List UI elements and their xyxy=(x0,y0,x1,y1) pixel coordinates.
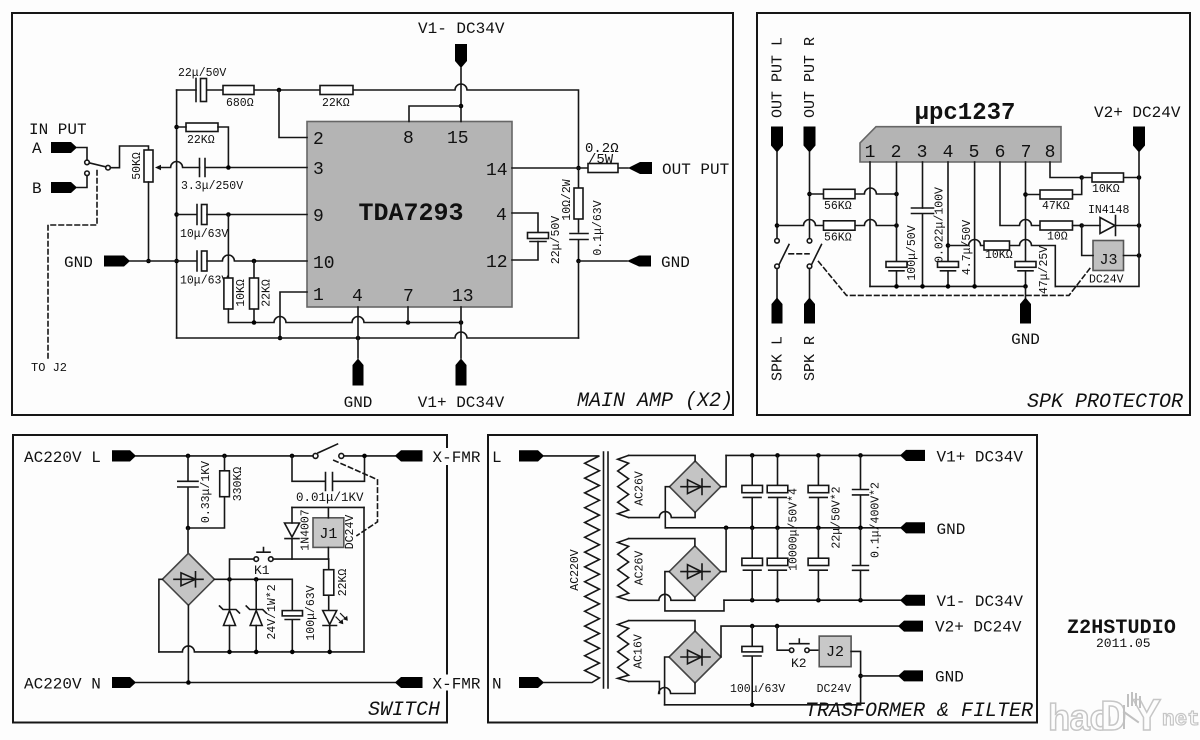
svg-text:N: N xyxy=(492,676,502,694)
resistor R2 22K feedback top xyxy=(320,86,353,111)
svg-text:0.1μ/63V: 0.1μ/63V xyxy=(592,200,605,255)
junction gnd c3 xyxy=(816,526,821,531)
svg-text:IN4148: IN4148 xyxy=(1088,204,1130,217)
svg-text:TRASFORMER & FILTER: TRASFORMER & FILTER xyxy=(805,700,1033,723)
transformer core xyxy=(604,452,609,688)
wire pin5 u2 xyxy=(974,162,976,286)
svg-text:100μ/63V: 100μ/63V xyxy=(730,683,785,696)
junction rail pin5 xyxy=(972,284,977,289)
svg-text:2: 2 xyxy=(313,130,324,150)
svg-text:SPK L: SPK L xyxy=(770,336,787,381)
svg-text:10KΩ: 10KΩ xyxy=(235,279,248,307)
connector AC220V L xyxy=(24,449,136,467)
junction left bus 22K xyxy=(174,125,179,130)
svg-text:GND: GND xyxy=(937,521,966,539)
connector GND bottom xyxy=(344,359,373,413)
positive row from bridge right xyxy=(214,579,292,610)
svg-text:4: 4 xyxy=(496,206,507,226)
svg-text:V2+ DC24V: V2+ DC24V xyxy=(1094,104,1181,122)
junction 10K V2+ xyxy=(1137,175,1142,180)
svg-text:3: 3 xyxy=(313,160,324,180)
connector N xfmr xyxy=(490,675,544,694)
pushbutton K2 xyxy=(777,626,809,671)
svg-text:24V/1W*2: 24V/1W*2 xyxy=(266,584,279,639)
IC U1 TDA7293 body xyxy=(307,122,512,308)
connector OUT PUT L top xyxy=(770,37,787,153)
svg-text:SPK PROTECTOR: SPK PROTECTOR xyxy=(1027,391,1183,414)
junction pin9 r4 branch xyxy=(226,212,231,217)
junction v1- c4 xyxy=(858,598,863,603)
bridge rectifier B4 xyxy=(669,631,721,683)
wire bridge2 left to gnd rail xyxy=(665,487,669,528)
svg-text:10μ/63V: 10μ/63V xyxy=(180,228,228,241)
svg-text:net: net xyxy=(1162,709,1200,732)
capacitor 10000u b2 xyxy=(767,528,788,600)
svg-text:22KΩ: 22KΩ xyxy=(337,569,350,597)
capacitor 22u b3 xyxy=(808,528,829,600)
resistor 47K xyxy=(1026,178,1082,214)
wire switch to pot xyxy=(110,146,148,168)
junction gnd2 J2 xyxy=(858,674,863,679)
connector V1+ DC34V xyxy=(418,359,505,413)
connector SPK R xyxy=(802,298,819,382)
connector GND xfmr1 xyxy=(900,521,965,539)
junction L rail 330K branch xyxy=(222,454,227,459)
wire pin7 stub xyxy=(407,307,409,323)
junction pot-gnd xyxy=(146,259,151,264)
switch mains xyxy=(313,444,344,458)
wire pin 8 xyxy=(409,106,461,122)
capacitor 100u/63V xfmr xyxy=(730,626,785,705)
svg-text:2011.05: 2011.05 xyxy=(1096,636,1151,651)
resistor R7 22K vertical xyxy=(250,261,274,323)
svg-text:/5W: /5W xyxy=(588,152,614,168)
junction v1+ c3 xyxy=(816,453,821,458)
junction posrow zener2 xyxy=(254,577,259,582)
wire pin9 node down to R4 xyxy=(227,215,229,279)
wire switch to X-FMR L xyxy=(344,455,395,457)
zener diode Z1 24V xyxy=(220,579,240,652)
LED indicator xyxy=(323,611,348,652)
wire bridge3 left to V1- rail xyxy=(665,572,724,611)
resistor R4 10K vertical xyxy=(224,278,248,323)
svg-text:TDA7293: TDA7293 xyxy=(358,199,463,228)
wire sec2 bottom to bridge3 xyxy=(629,594,695,600)
svg-text:J3: J3 xyxy=(1099,252,1117,269)
potentiometer VR1 50K body xyxy=(131,150,153,182)
junction 10ohm diode node xyxy=(1079,223,1084,228)
junction v1- c3 xyxy=(816,598,821,603)
N rail xyxy=(136,682,395,684)
svg-text:V2+ DC24V: V2+ DC24V xyxy=(935,619,1022,637)
junction rail pin2 cap xyxy=(894,284,899,289)
wire pin2 u2 xyxy=(896,162,898,262)
capacitor 0.1u a4 xyxy=(853,455,883,558)
svg-text:TO J2: TO J2 xyxy=(31,361,67,375)
IC U2 upc1237 body xyxy=(860,100,1061,162)
svg-text:330KΩ: 330KΩ xyxy=(232,467,245,502)
wire A to switch xyxy=(77,148,87,161)
capacitor 0.022u/100V pin3 xyxy=(912,187,947,286)
capacitor C6 22u/50V pins 4-12 xyxy=(512,213,563,264)
bridge rectifier B3 xyxy=(669,546,720,597)
wire SPK L drop xyxy=(776,269,778,299)
svg-text:680Ω: 680Ω xyxy=(226,97,254,110)
wire pin1 u2 xyxy=(869,162,871,286)
relay J1 xyxy=(313,507,357,559)
capacitor 100u/63V sw xyxy=(282,585,318,652)
connector SPK L xyxy=(770,298,787,382)
junction output node pin14 xyxy=(576,166,581,171)
svg-text:IN PUT: IN PUT xyxy=(29,121,87,139)
zener diode Z2 24V xyxy=(246,579,279,652)
svg-text:AC220V: AC220V xyxy=(569,549,582,591)
V2+ rail xfmr xyxy=(752,625,898,627)
svg-text:GND: GND xyxy=(661,254,690,272)
svg-text:5: 5 xyxy=(969,143,980,163)
junction gnd2 cap xyxy=(750,703,755,708)
wire V1- to pin15 xyxy=(460,68,462,122)
box SWITCH frame xyxy=(13,435,447,723)
capacitor 10000u b1 xyxy=(742,528,763,600)
svg-text:OUT PUT R: OUT PUT R xyxy=(802,37,819,118)
potentiometer wiper arrow xyxy=(155,165,161,171)
junction pin4 row3 xyxy=(946,243,951,248)
wire bridge left corner to bottom row xyxy=(159,579,163,652)
svg-text:0.33μ/1KV: 0.33μ/1KV xyxy=(200,461,213,523)
svg-text:3.3μ/250V: 3.3μ/250V xyxy=(181,180,243,193)
svg-text:SWITCH: SWITCH xyxy=(368,699,440,722)
svg-text:2: 2 xyxy=(891,143,902,163)
svg-text:1: 1 xyxy=(865,143,876,163)
junction L rail snubber branch xyxy=(290,454,295,459)
junction row2 pin2 xyxy=(894,223,899,228)
junction gnd c4 xyxy=(858,526,863,531)
svg-text:AC16V: AC16V xyxy=(633,634,646,669)
connector GND spk xyxy=(1011,286,1040,349)
svg-text:22μ/50V: 22μ/50V xyxy=(178,67,226,80)
junction v1+ c2 xyxy=(775,453,780,458)
junction rail pin3 cap xyxy=(920,284,925,289)
svg-text:GND: GND xyxy=(344,394,373,412)
svg-text:22KΩ: 22KΩ xyxy=(187,134,215,147)
connector V2+ DC24V xfmr xyxy=(898,619,1022,637)
wire sec2 top to bridge3 xyxy=(629,539,695,546)
svg-text:D: D xyxy=(1100,694,1126,740)
watermark haoDIY.net xyxy=(1048,692,1200,740)
junction v1+ c1 xyxy=(750,453,755,458)
svg-text:15: 15 xyxy=(447,129,469,149)
svg-text:47μ/25V: 47μ/25V xyxy=(1038,246,1051,294)
junction negrow cap xyxy=(290,650,295,655)
dashed link to J2 xyxy=(48,171,97,362)
wire sec1 bottom to bridge2 xyxy=(629,512,696,518)
junction pin8 node xyxy=(1079,175,1084,180)
svg-text:7: 7 xyxy=(403,287,414,307)
bridge rectifier B2 xyxy=(670,461,721,512)
V1+ rail xfmr xyxy=(726,454,900,456)
junction gnd c2 xyxy=(775,526,780,531)
svg-text:10: 10 xyxy=(313,254,335,274)
svg-text:X-FMR N: X-FMR N xyxy=(433,676,500,694)
junction rail1 pin13 xyxy=(459,320,464,325)
svg-text:V1+ DC34V: V1+ DC34V xyxy=(937,449,1024,467)
svg-text:10Ω: 10Ω xyxy=(1047,231,1068,244)
svg-text:6: 6 xyxy=(995,143,1006,163)
ground rail spk xyxy=(870,256,1139,287)
left bus vertical xyxy=(176,90,178,338)
svg-text:22KΩ: 22KΩ xyxy=(261,279,274,307)
svg-text:K1: K1 xyxy=(254,563,270,578)
connector V2+ DC24V spk xyxy=(1094,104,1181,153)
resistor 10K top right xyxy=(1082,173,1139,196)
wire pot bottom to gnd row xyxy=(148,182,150,261)
junction negrow zener2 xyxy=(254,650,259,655)
svg-text:8: 8 xyxy=(403,129,414,149)
junction rail1 22K xyxy=(252,320,257,325)
resistor R1 680ohm xyxy=(223,86,254,111)
relay J2 xyxy=(809,636,851,696)
svg-text:MAIN AMP (X2): MAIN AMP (X2) xyxy=(577,390,733,413)
svg-text:V1+ DC34V: V1+ DC34V xyxy=(418,394,505,412)
junction posrow zener1 xyxy=(227,577,232,582)
capacitor 4.7u/50V pin4 xyxy=(938,220,975,287)
wire down to bridge xyxy=(187,528,189,553)
svg-text:14: 14 xyxy=(486,161,508,181)
junction top rail pin2 branch xyxy=(277,88,282,93)
wire J3 left to diode node xyxy=(1082,226,1093,256)
svg-text:0.022μ/100V: 0.022μ/100V xyxy=(934,187,947,263)
junction snubber right xyxy=(362,454,367,459)
switch SPK R xyxy=(807,239,821,269)
connector OUT PUT xyxy=(628,161,729,179)
svg-text:0.01μ/1KV: 0.01μ/1KV xyxy=(296,491,364,505)
junction pin8 branch xyxy=(459,104,464,109)
gnd2 rail xyxy=(665,676,861,705)
wire bridge3 right to gnd rail xyxy=(721,528,727,572)
svg-text:10μ/63V: 10μ/63V xyxy=(180,275,228,288)
connector X-FMR N xyxy=(395,675,503,694)
svg-text:22KΩ: 22KΩ xyxy=(322,97,350,110)
wire bridge4 right to V2+ rail xyxy=(721,626,752,657)
junction gnd node xyxy=(576,259,581,264)
box TRASFORMER frame xyxy=(488,435,1037,723)
svg-text:OUT PUT: OUT PUT xyxy=(662,161,729,179)
wire pin13 to V1+ connector xyxy=(460,307,462,358)
svg-text:Y: Y xyxy=(1133,692,1161,740)
wire J1 loop right vertical xyxy=(363,507,365,652)
wire bridge4 left to gnd2 rail xyxy=(665,657,669,705)
wire SPK R drop xyxy=(809,269,811,299)
svg-text:B: B xyxy=(32,180,42,198)
diode IN4148 xyxy=(1082,204,1139,236)
resistor 22K j1 xyxy=(324,559,350,610)
wire sec3 bottom to bridge4 xyxy=(629,681,695,693)
resistor R6 10ohm/2W vertical xyxy=(561,168,583,232)
transformer T1 primary xyxy=(544,456,599,683)
capacitor 10000u a1 xyxy=(742,455,763,527)
capacitor 100u/50V pin2 xyxy=(886,225,919,286)
wire J3 right to V2+ xyxy=(1124,255,1140,257)
top rail from C1 to output node xyxy=(177,84,579,168)
secondary AC26V no2 xyxy=(618,539,647,601)
svg-text:J1: J1 xyxy=(319,526,337,543)
junction v1- c1 xyxy=(750,598,755,603)
junction J3 V2+ xyxy=(1137,253,1142,258)
diode 1N4007 xyxy=(285,507,313,559)
wire gnd2 to connector xyxy=(861,675,898,677)
svg-text:AC26V: AC26V xyxy=(634,551,647,586)
connector B xyxy=(32,180,77,198)
wire J2 right to gnd xyxy=(851,651,861,676)
svg-text:4.7μ/50V: 4.7μ/50V xyxy=(961,220,974,275)
bridge rectifier B1 xyxy=(162,553,214,605)
svg-text:μpc1237: μpc1237 xyxy=(915,100,1016,127)
junction row1 pin2 xyxy=(894,192,899,197)
wire pin8 u2 xyxy=(1050,162,1082,178)
svg-text:100μ/50V: 100μ/50V xyxy=(906,225,919,280)
svg-text:1: 1 xyxy=(313,286,324,306)
resistor 10K row3 xyxy=(948,240,1055,287)
capacitor 0.33u/1KV xyxy=(178,456,213,528)
dashed relay link xyxy=(789,254,1091,296)
resistor 330K xyxy=(188,456,245,528)
resistor 56K row1 xyxy=(810,188,897,213)
wire pin7 u2 xyxy=(1025,162,1027,262)
connector A xyxy=(32,140,77,158)
wire pin4 bottom to GND connector xyxy=(357,307,359,358)
capacitor C2 3.3u/250V xyxy=(181,159,307,194)
wire bridge2 right to V1+ rail xyxy=(721,455,726,486)
svg-text:22μ/50V: 22μ/50V xyxy=(550,216,563,264)
svg-text:12: 12 xyxy=(486,253,508,273)
connector V1- DC34V xfmr xyxy=(900,593,1023,611)
capacitor C1 22u/50V xyxy=(178,67,226,102)
capacitor 47u/25V pin7 xyxy=(1015,246,1051,294)
junction pin3 node xyxy=(226,165,231,170)
svg-text:AC220V N: AC220V N xyxy=(24,676,101,694)
svg-text:47KΩ: 47KΩ xyxy=(1042,200,1070,213)
connector X-FMR L xyxy=(395,448,503,467)
V1- rail xfmr xyxy=(724,599,900,601)
svg-text:4: 4 xyxy=(352,287,363,307)
junction negrow led xyxy=(327,650,332,655)
secondary AC16V xyxy=(618,621,646,682)
junction left bus pin9 xyxy=(174,212,179,217)
junction pin10 22K branch xyxy=(252,259,257,264)
capacitor 10000u a2 xyxy=(767,455,800,571)
junction left bus gnd row xyxy=(174,259,179,264)
svg-text:13: 13 xyxy=(452,287,474,307)
resistor 10ohm xyxy=(1040,221,1082,244)
svg-text:10Ω/2W: 10Ω/2W xyxy=(561,179,574,221)
wire V2+ vertical xyxy=(1138,153,1140,256)
junction rail2 pin4 xyxy=(356,336,361,341)
capacitor C7 0.1u/63V xyxy=(570,200,605,261)
wire K1 left down xyxy=(230,559,254,579)
junction out-R row1 xyxy=(807,192,812,197)
connector L xfmr xyxy=(490,448,544,467)
connector OUT PUT R top xyxy=(802,37,819,153)
connector GND input xyxy=(64,254,130,272)
wire bridge bottom to N rail xyxy=(187,605,189,682)
capacitor 0.1u b4 xyxy=(853,528,869,600)
svg-text:AC220V L: AC220V L xyxy=(24,449,101,467)
junction negrow zener1 xyxy=(227,650,232,655)
rail2 ground row xyxy=(177,332,579,338)
resistor 56K row2 xyxy=(777,220,897,245)
svg-text:4: 4 xyxy=(943,143,954,163)
switch SPK L xyxy=(775,239,789,269)
junction L rail bridge branch xyxy=(186,454,191,459)
svg-text:X-FMR L: X-FMR L xyxy=(433,449,500,467)
svg-text:56KΩ: 56KΩ xyxy=(824,200,852,213)
wire pin14 xyxy=(512,167,579,169)
svg-text:DC24V: DC24V xyxy=(1089,274,1124,287)
wire K1 right to J1 bottom xyxy=(273,558,329,560)
wire gnd node down to rail2 xyxy=(578,261,580,338)
svg-text:GND: GND xyxy=(935,669,964,687)
svg-text:10KΩ: 10KΩ xyxy=(985,249,1013,262)
rail1 supply row xyxy=(228,317,461,323)
bottom negative row xyxy=(159,646,364,652)
secondary AC26V no1 xyxy=(618,455,647,517)
svg-text:100μ/63V: 100μ/63V xyxy=(305,585,318,640)
svg-text:DC24V: DC24V xyxy=(817,683,852,696)
svg-text:AC26V: AC26V xyxy=(634,471,647,506)
svg-text:OUT PUT L: OUT PUT L xyxy=(770,37,787,118)
svg-text:9: 9 xyxy=(313,207,324,227)
svg-text:V1- DC34V: V1- DC34V xyxy=(418,20,505,38)
resistor R3 22K input xyxy=(177,123,229,168)
junction diode V2+ xyxy=(1137,223,1142,228)
wire sec1 top to bridge2 xyxy=(629,455,696,461)
connector V1- DC34V xyxy=(418,20,505,68)
junction pin7 47K row xyxy=(1023,192,1028,197)
svg-text:SPK R: SPK R xyxy=(802,336,819,381)
svg-text:7: 7 xyxy=(1021,143,1032,163)
svg-text:V1- DC34V: V1- DC34V xyxy=(937,593,1024,611)
svg-text:GND: GND xyxy=(1011,331,1040,349)
box SPK PROTECTOR frame xyxy=(757,13,1190,415)
svg-text:10KΩ: 10KΩ xyxy=(1092,183,1120,196)
svg-text:DC24V: DC24V xyxy=(344,515,357,550)
snubber cap 0.01u/1KV xyxy=(292,456,365,505)
svg-text:50KΩ: 50KΩ xyxy=(131,152,144,180)
wire to pin 2 xyxy=(279,90,307,138)
svg-text:K2: K2 xyxy=(791,656,807,671)
junction v1+ c4 xyxy=(858,453,863,458)
credit Z2HSTUDIO xyxy=(1067,617,1176,651)
junction v1- c2 xyxy=(775,598,780,603)
svg-text:J2: J2 xyxy=(826,644,844,661)
wire out-R vertical xyxy=(809,153,811,239)
junction rail gnd drop xyxy=(1023,284,1028,289)
capacitor 22u a3 xyxy=(808,455,843,548)
dashed mech link sw xyxy=(334,460,378,535)
svg-text:A: A xyxy=(32,140,42,158)
svg-text:1N4007: 1N4007 xyxy=(300,509,313,550)
top L rail xyxy=(136,455,313,457)
svg-text:22μ/50V*2: 22μ/50V*2 xyxy=(831,486,844,548)
resistor R5 0.2ohm/5W xyxy=(579,141,629,173)
svg-text:3: 3 xyxy=(917,143,928,163)
wire pin4 u2 xyxy=(947,162,949,262)
svg-text:10000μ/50V*4: 10000μ/50V*4 xyxy=(788,488,801,571)
junction rail pin4 cap xyxy=(946,284,951,289)
relay J3 xyxy=(1089,241,1124,287)
wire pin6 u2 to 10ohm row xyxy=(1000,162,1040,226)
